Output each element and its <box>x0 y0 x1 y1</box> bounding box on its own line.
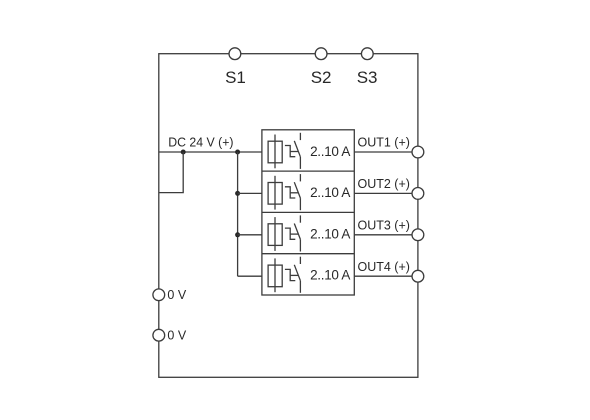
svg-text:0 V: 0 V <box>167 288 186 302</box>
wire: branch to channel 4 (bus corner) <box>238 275 262 277</box>
wire: branch to channel 3 <box>238 234 262 236</box>
terminal OUT1 <box>412 146 424 158</box>
svg-text:S1: S1 <box>225 68 246 87</box>
node: bus junction dot row 3 <box>235 232 240 237</box>
svg-text:S3: S3 <box>357 68 378 87</box>
wire: channel 3 output <box>354 234 412 236</box>
breaker contact Q1 <box>285 133 301 169</box>
terminal S1 <box>229 48 241 60</box>
svg-text:OUT4 (+): OUT4 (+) <box>358 260 410 274</box>
fuse F4 <box>268 258 282 292</box>
wire: internal jumper stub down <box>159 152 183 193</box>
svg-text:0 V: 0 V <box>167 328 186 342</box>
svg-text:2..10 A: 2..10 A <box>310 226 350 241</box>
channel box outline <box>262 130 354 295</box>
svg-text:DC 24 V (+): DC 24 V (+) <box>168 136 233 150</box>
wire: channel 2 output <box>354 192 412 194</box>
terminal 0V upper <box>153 289 165 301</box>
node: bus junction dot row 2 <box>235 191 240 196</box>
fuse F3 <box>268 217 282 251</box>
terminal OUT4 <box>412 270 424 282</box>
fuse F1 <box>268 135 282 169</box>
breaker contact Q2 <box>285 174 301 210</box>
svg-text:2..10 A: 2..10 A <box>310 268 350 283</box>
terminal S2 <box>315 48 327 60</box>
terminal OUT2 <box>412 188 424 200</box>
wire: outer supply loop (top S-bus, left 0V rail, right OUT bus, bottom return) <box>159 54 418 378</box>
breaker contact Q4 <box>285 257 301 293</box>
terminal S3 <box>361 48 373 60</box>
svg-text:OUT2 (+): OUT2 (+) <box>358 177 410 191</box>
channel box divider 1 <box>262 170 354 172</box>
svg-text:S2: S2 <box>311 68 332 87</box>
terminal OUT3 <box>412 229 424 241</box>
wire: channel 1 output <box>354 151 412 153</box>
fuse F2 <box>268 176 282 210</box>
svg-text:2..10 A: 2..10 A <box>310 185 350 200</box>
breaker contact Q3 <box>285 215 301 251</box>
node: bus junction dot row 1 <box>235 150 240 155</box>
terminal 0V lower <box>153 329 165 341</box>
wire: vertical distribution bus <box>237 152 239 276</box>
wire: DC 24 V (+) feed from left rail to channel box <box>159 151 262 153</box>
svg-text:OUT3 (+): OUT3 (+) <box>358 219 410 233</box>
wire: branch to channel 2 <box>238 192 262 194</box>
node: junction dot on DC 24 V wire <box>181 150 186 155</box>
svg-text:OUT1 (+): OUT1 (+) <box>358 136 410 150</box>
wire: channel 4 output <box>354 275 412 277</box>
channel box divider 2 <box>262 211 354 213</box>
channel box divider 3 <box>262 253 354 255</box>
svg-text:2..10 A: 2..10 A <box>310 144 350 159</box>
